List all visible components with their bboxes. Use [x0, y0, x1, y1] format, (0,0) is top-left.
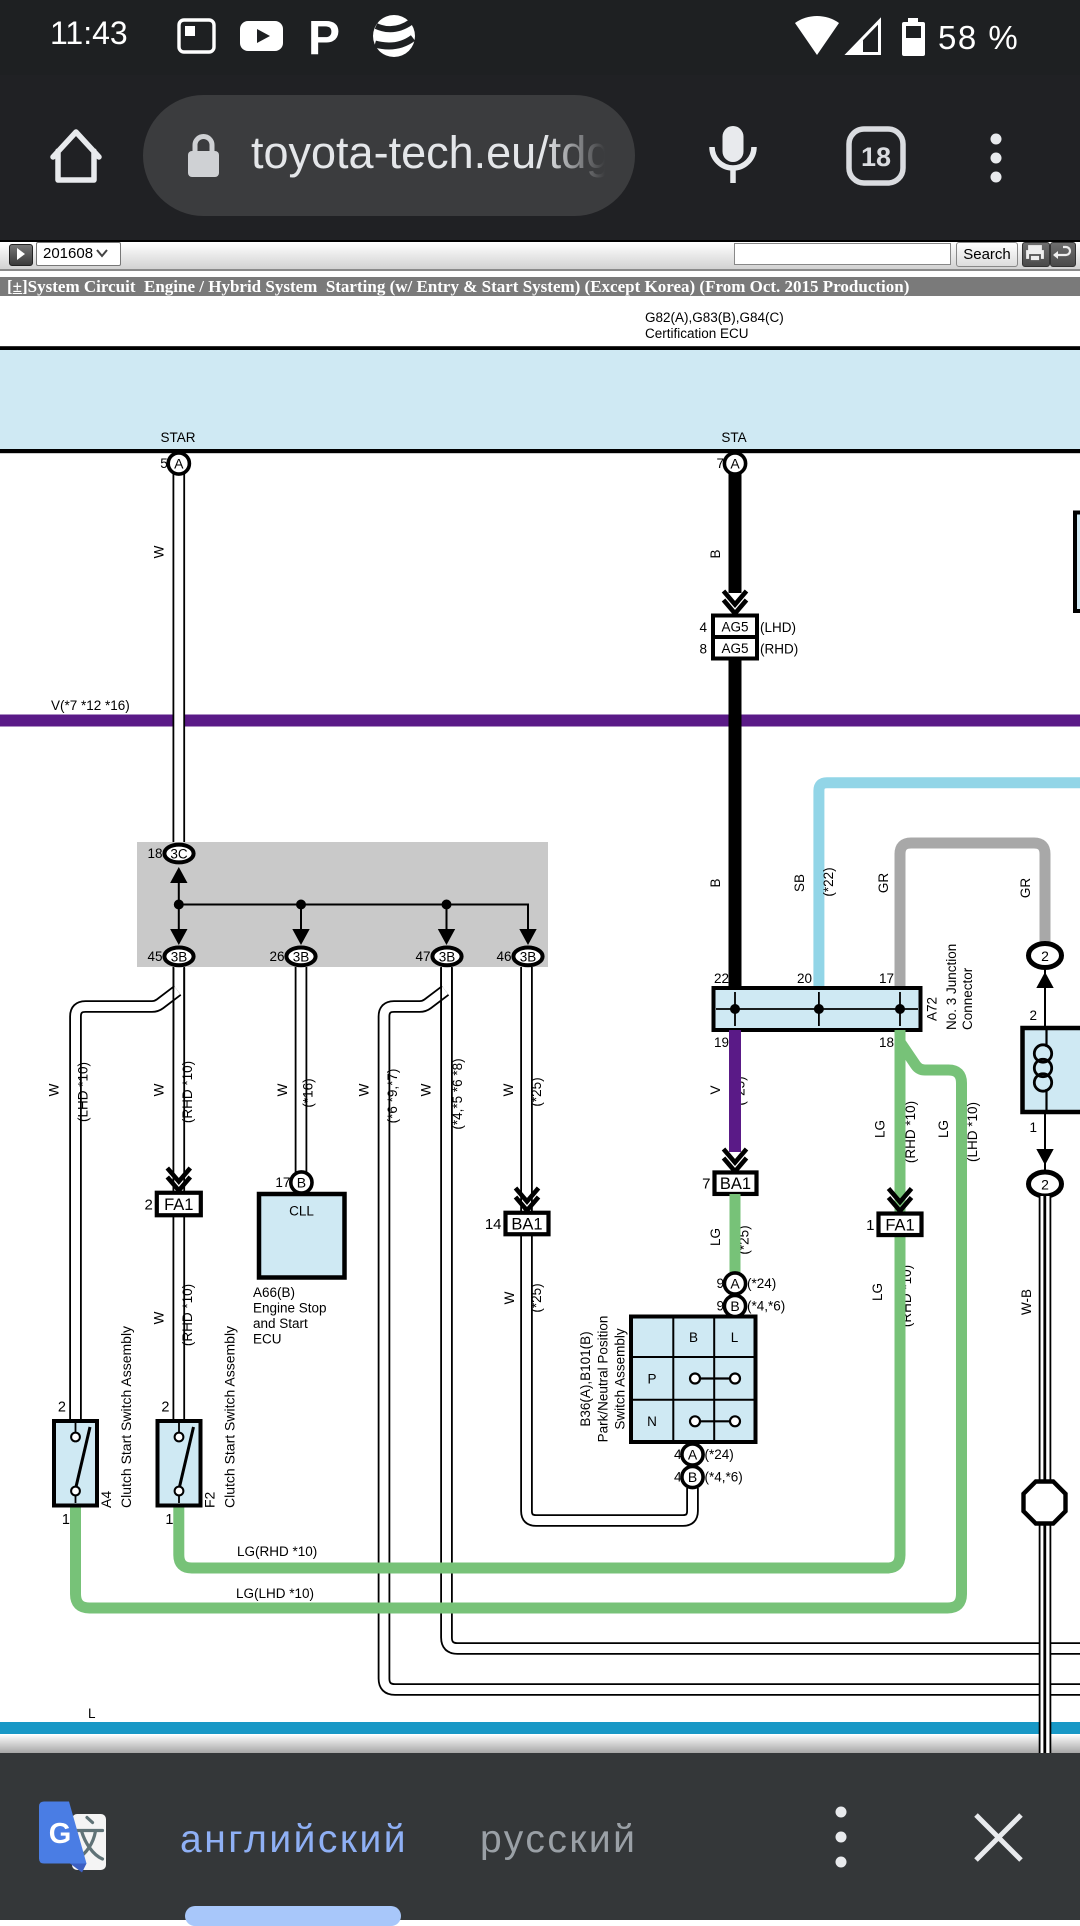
svg-text:2: 2 — [58, 1400, 66, 1416]
wire W (*25) from 46 3B via 14 BA1 to park/neutral pin 4B — [527, 967, 693, 1521]
svg-text:Switch Assembly: Switch Assembly — [613, 1328, 628, 1430]
connector FA1 pin 1 green — [866, 1214, 921, 1236]
svg-text:W-B: W-B — [1019, 1289, 1034, 1315]
svg-text:A72: A72 — [925, 997, 940, 1021]
svg-text:P: P — [647, 1372, 656, 1387]
svg-text:2: 2 — [1041, 1177, 1049, 1193]
junction block (cut off at right edge) — [1075, 513, 1080, 612]
svg-text:LG: LG — [870, 1283, 885, 1301]
pin 17B CLL input — [275, 1172, 312, 1193]
wire W from STAR pin 5A — [173, 474, 186, 842]
wire LG (LHD *10) main run — [76, 1042, 962, 1608]
browser toolbar — [0, 75, 1080, 240]
wire W (*6 *9,*7) from 47 3B — [384, 991, 1080, 1690]
arrow down to connector 2 — [1036, 1149, 1053, 1165]
svg-text:(*24): (*24) — [747, 1276, 776, 1291]
svg-text:FA1: FA1 — [164, 1196, 193, 1214]
svg-text:17: 17 — [275, 1175, 290, 1190]
wire W (*16) from 26 3B to CLL ECU pin 17B — [295, 967, 308, 1172]
svg-text:No. 3 Junction: No. 3 Junction — [944, 944, 959, 1030]
svg-text:B: B — [689, 1330, 698, 1345]
svg-text:F2: F2 — [202, 1491, 218, 1508]
mic icon — [712, 126, 754, 183]
wire W (RHD *10) from 45 3B to clutch switch F2 — [173, 967, 186, 1421]
svg-text:LG(LHD *10): LG(LHD *10) — [236, 1586, 314, 1601]
svg-text:26: 26 — [269, 949, 284, 964]
svg-text:W: W — [501, 1083, 516, 1096]
junction dot — [174, 900, 184, 910]
pin 7A STA output — [716, 453, 745, 474]
svg-text:3B: 3B — [520, 949, 537, 964]
svg-text:46: 46 — [496, 949, 511, 964]
svg-text:B: B — [708, 549, 723, 558]
junction dot — [442, 900, 452, 910]
wire B (black) from STA — [729, 474, 742, 989]
svg-text:STA: STA — [721, 430, 746, 445]
wire LG (*25) to park/neutral switch — [730, 1194, 741, 1272]
svg-text:18: 18 — [147, 846, 162, 861]
pin 5A STAR output — [160, 453, 189, 474]
arrow down to 26 3B — [292, 929, 309, 945]
calendar notification icon — [179, 20, 214, 52]
relay coil — [1045, 1028, 1047, 1047]
svg-text:18: 18 — [879, 1035, 894, 1050]
lock icon — [188, 137, 219, 178]
svg-text:(*22): (*22) — [821, 867, 836, 896]
svg-text:LG: LG — [708, 1228, 723, 1246]
svg-text:(*24): (*24) — [705, 1447, 734, 1462]
connector BA1 pin 7 — [702, 1172, 756, 1194]
connector 26 3B (junction out 2) — [269, 948, 315, 966]
svg-text:A: A — [688, 1447, 698, 1463]
connector AG5 (LHD) pin 4 / AG5 (RHD) pin 8 — [699, 616, 798, 659]
svg-text:BA1: BA1 — [511, 1216, 542, 1234]
connector arrow into 2 FA1 — [167, 1168, 190, 1191]
svg-text:2: 2 — [161, 1400, 169, 1416]
svg-text:B: B — [688, 1469, 697, 1485]
svg-text:1: 1 — [165, 1512, 173, 1528]
wire SB (*22) — [819, 783, 1080, 988]
svg-text:(*25): (*25) — [529, 1077, 544, 1106]
svg-text:(*6 *9,*7): (*6 *9,*7) — [385, 1069, 400, 1124]
svg-text:(RHD *10): (RHD *10) — [180, 1284, 195, 1346]
noise filter octagon — [1024, 1482, 1066, 1524]
connector 46 3B (junction out 4) — [496, 948, 542, 966]
arrow up to 3C — [170, 867, 187, 883]
svg-text:A66(B): A66(B) — [253, 1285, 295, 1300]
svg-text:Park/Neutral Position: Park/Neutral Position — [596, 1316, 611, 1443]
svg-text:8: 8 — [699, 642, 707, 657]
svg-text:(LHD *10): (LHD *10) — [965, 1102, 980, 1162]
svg-text:1: 1 — [1029, 1120, 1037, 1135]
svg-text:Connector: Connector — [960, 967, 975, 1030]
svg-text:W: W — [46, 1083, 61, 1096]
switch B36(A),B101(B) Park/Neutral Position Switch Assembly — [578, 1316, 756, 1443]
svg-text:W: W — [152, 1311, 167, 1324]
svg-text:Clutch Start Switch Assembly: Clutch Start Switch Assembly — [222, 1326, 238, 1508]
starter relay (cut off at right edge) — [1023, 1008, 1080, 1135]
svg-text:A: A — [730, 1276, 740, 1292]
svg-text:9: 9 — [716, 1299, 724, 1314]
svg-text:3B: 3B — [293, 949, 310, 964]
arrow up to relay pin 2 — [1036, 972, 1053, 988]
svg-text:(RHD): (RHD) — [760, 642, 798, 657]
svg-text:17: 17 — [879, 971, 894, 986]
connector arrow into AG5 — [724, 591, 747, 614]
contact P row — [690, 1374, 740, 1384]
svg-text:N: N — [647, 1414, 657, 1429]
connector arrow into 14 BA1 — [516, 1188, 539, 1211]
pin 9A park/neutral top A — [716, 1273, 776, 1294]
svg-text:2: 2 — [1041, 948, 1049, 964]
svg-text:Clutch Start Switch Assembly: Clutch Start Switch Assembly — [118, 1326, 134, 1508]
title bar — [0, 277, 1080, 296]
svg-text:45: 45 — [147, 949, 162, 964]
svg-text:4: 4 — [699, 620, 707, 635]
connector 47 3B (junction out 3) — [415, 948, 461, 966]
arrow down to 46 3B — [519, 929, 536, 945]
wire joint detail — [441, 968, 452, 1040]
printer glyph — [1027, 246, 1043, 261]
connector oval 2 (from GR wire) — [1029, 944, 1062, 968]
google translate icon — [39, 1802, 106, 1873]
svg-text:(*4,*6): (*4,*6) — [747, 1299, 785, 1314]
connector 18 3C (junction in) — [147, 845, 193, 863]
svg-text:19: 19 — [714, 1035, 729, 1050]
status bar — [0, 0, 1080, 75]
svg-text:B36(A),B101(B): B36(A),B101(B) — [578, 1331, 593, 1426]
svg-text:(LHD): (LHD) — [760, 620, 796, 635]
home icon — [53, 132, 99, 180]
connector BA1 pin 14 — [485, 1213, 549, 1235]
close X — [976, 1815, 1021, 1860]
svg-text:(LHD *10): (LHD *10) — [76, 1062, 91, 1122]
svg-text:and Start: and Start — [253, 1316, 308, 1331]
svg-text:W: W — [152, 1083, 167, 1096]
svg-text:(*4,*5 *6 *8): (*4,*5 *6 *8) — [450, 1058, 465, 1129]
svg-text:GR: GR — [876, 873, 891, 894]
svg-text:5: 5 — [160, 456, 168, 471]
svg-text:B: B — [730, 1298, 739, 1314]
svg-text:9: 9 — [716, 1276, 724, 1291]
svg-text:V: V — [708, 1085, 723, 1094]
svg-text:4: 4 — [674, 1470, 682, 1485]
svg-text:AG5: AG5 — [721, 641, 748, 656]
pin 4A park/neutral bottom A — [674, 1444, 734, 1465]
svg-text:1: 1 — [62, 1512, 70, 1528]
svg-text:G: G — [49, 1818, 72, 1850]
wire V(*7 *12 *16) horizontal — [0, 698, 1080, 727]
connector 45 3B (junction out 1) — [147, 948, 193, 966]
wire joint detail — [173, 968, 184, 1040]
svg-text:B: B — [708, 878, 723, 887]
svg-text:LG: LG — [936, 1120, 951, 1138]
switch F2 Clutch Start Switch Assembly — [158, 1326, 238, 1528]
swirl notification icon — [373, 15, 415, 57]
svg-text:7: 7 — [702, 1176, 710, 1193]
svg-text:Engine Stop: Engine Stop — [253, 1301, 327, 1316]
junction dot — [296, 900, 306, 910]
svg-text:W: W — [152, 545, 167, 558]
svg-text:(*16): (*16) — [301, 1078, 316, 1107]
svg-text:2: 2 — [144, 1197, 152, 1214]
svg-text:A4: A4 — [98, 1491, 114, 1508]
svg-text:3C: 3C — [170, 847, 188, 862]
svg-text:Certification ECU: Certification ECU — [645, 326, 749, 341]
junction connector A72 No. 3 — [714, 944, 976, 1050]
svg-text:L: L — [731, 1330, 739, 1345]
connector oval 2 (to W-B wire) — [1029, 1172, 1062, 1196]
svg-text:AG5: AG5 — [721, 620, 748, 635]
kebab menu — [836, 1807, 847, 1868]
youtube notification icon — [240, 21, 283, 51]
wire V (*25) — [729, 1030, 741, 1152]
arrow down to 45 3B — [170, 929, 187, 945]
svg-text:4: 4 — [674, 1447, 682, 1462]
page bottom shading — [0, 1735, 1080, 1754]
svg-text:(*4,*6): (*4,*6) — [705, 1470, 743, 1485]
svg-text:W: W — [357, 1083, 372, 1096]
svg-text:W: W — [419, 1083, 434, 1096]
svg-text:20: 20 — [797, 971, 812, 986]
wire LG (RHD *10) main run — [179, 1030, 900, 1568]
relay pin wires — [1044, 968, 1046, 1172]
svg-text:LG(RHD *10): LG(RHD *10) — [237, 1544, 317, 1559]
svg-text:CLL: CLL — [289, 1204, 314, 1219]
wire W (*4,*5 *6 *8) from 47 3B — [447, 967, 1080, 1649]
svg-text:1: 1 — [866, 1217, 874, 1234]
svg-text:ECU: ECU — [253, 1332, 282, 1347]
svg-text:GR: GR — [1018, 878, 1033, 899]
cellular icon — [848, 21, 880, 54]
svg-text:3B: 3B — [439, 949, 456, 964]
arrow down to 47 3B — [438, 929, 455, 945]
svg-text:47: 47 — [415, 949, 430, 964]
svg-text:B: B — [297, 1175, 306, 1191]
tab counter — [849, 129, 903, 183]
svg-text:G82(A),G83(B),G84(C): G82(A),G83(B),G84(C) — [645, 310, 784, 325]
svg-text:W: W — [502, 1291, 517, 1304]
svg-text:7: 7 — [716, 456, 724, 471]
svg-text:14: 14 — [485, 1216, 502, 1233]
svg-text:V(*7 *12 *16): V(*7 *12 *16) — [51, 698, 130, 713]
wifi icon — [795, 16, 839, 55]
svg-text:A: A — [730, 456, 740, 472]
ECU A66(B) Engine Stop and Start (CLL) — [253, 1194, 345, 1347]
svg-text:(*25): (*25) — [529, 1283, 544, 1312]
wire labels — [46, 545, 1034, 1346]
svg-text:A: A — [174, 456, 184, 472]
svg-text:L: L — [88, 1706, 96, 1721]
pin 9B park/neutral top B — [716, 1295, 785, 1316]
shielded junction area (gray) — [137, 842, 548, 967]
svg-text:22: 22 — [714, 971, 729, 986]
svg-text:W: W — [275, 1083, 290, 1096]
W-B black stripe — [1043, 1196, 1046, 1755]
wire L (blue) horizontal — [0, 1706, 1080, 1734]
kebab menu — [991, 134, 1002, 183]
wire W-B to ground — [1039, 1196, 1052, 1756]
connector arrow into 1 FA1 — [889, 1189, 912, 1212]
contact N row — [690, 1416, 740, 1426]
svg-text:2: 2 — [1029, 1008, 1037, 1023]
bottom partial button — [185, 1906, 401, 1926]
svg-text:(RHD *10): (RHD *10) — [180, 1061, 195, 1123]
pin 4B park/neutral bottom B — [674, 1466, 743, 1487]
battery icon — [902, 18, 925, 56]
switch A4 Clutch Start Switch Assembly — [54, 1326, 134, 1528]
translate bar — [0, 1753, 1080, 1920]
bus wire inside junction — [179, 877, 528, 932]
svg-text:BA1: BA1 — [720, 1175, 751, 1193]
svg-text:FA1: FA1 — [885, 1216, 914, 1234]
wire W (LHD *10) to clutch switch A4 — [76, 991, 178, 1422]
web page toolbar — [0, 240, 1080, 271]
ECU G82(A),G83(B),G84(C) Certification ECU — [0, 310, 1080, 453]
svg-text:LG: LG — [873, 1120, 888, 1138]
svg-text:STAR: STAR — [160, 430, 195, 445]
connector FA1 pin 2 — [144, 1193, 200, 1216]
svg-text:SB: SB — [792, 874, 807, 892]
wire GR to starter relay — [900, 843, 1045, 988]
connector arrow into 7 BA1 — [724, 1149, 747, 1172]
svg-text:3B: 3B — [171, 949, 188, 964]
